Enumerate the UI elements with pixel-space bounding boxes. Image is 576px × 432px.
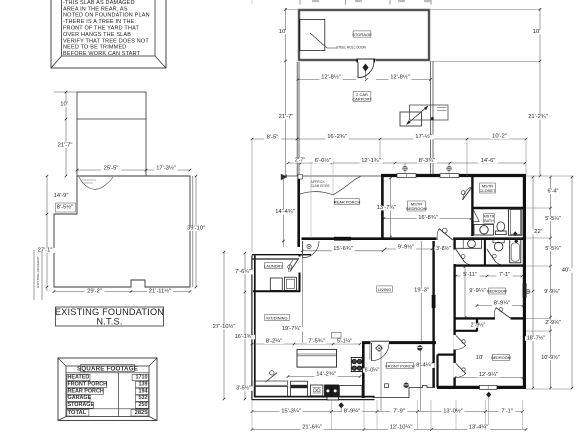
svg-text:CARPORT: CARPORT <box>352 97 372 102</box>
svg-text:17'-½": 17'-½" <box>415 133 431 140</box>
svg-text:10': 10' <box>476 355 484 361</box>
svg-text:-THERE IS A TREE IN THE: -THERE IS A TREE IN THE <box>63 19 135 25</box>
svg-text:OVER HANGS THE SLAB: OVER HANGS THE SLAB <box>63 32 131 38</box>
svg-text:1710: 1710 <box>136 375 148 381</box>
svg-text:21'-7": 21'-7" <box>279 114 294 120</box>
svg-text:21'-2¾": 21'-2¾" <box>528 114 548 120</box>
svg-text:BEDROOM: BEDROOM <box>491 356 511 360</box>
svg-text:AREA IN THE REAR, AS: AREA IN THE REAR, AS <box>63 6 128 12</box>
svg-text:15'-3¼": 15'-3¼" <box>281 408 301 414</box>
svg-text:FRONT OF THE YARD THAT: FRONT OF THE YARD THAT <box>63 26 140 32</box>
svg-text:12'-10¼": 12'-10¼" <box>390 425 413 431</box>
svg-text:10': 10' <box>533 29 541 35</box>
svg-text:27'-1": 27'-1" <box>38 248 53 254</box>
svg-text:194: 194 <box>139 388 148 394</box>
svg-text:STORAGE: STORAGE <box>352 32 372 37</box>
svg-text:18'-7½": 18'-7½" <box>527 335 546 342</box>
svg-text:NEED TO BE TRIMMED: NEED TO BE TRIMMED <box>63 45 126 51</box>
svg-text:8'-5": 8'-5" <box>267 134 279 140</box>
svg-text:NOTED ON FOUNDATION PLAN: NOTED ON FOUNDATION PLAN <box>63 13 150 19</box>
svg-text:KIT/DINING: KIT/DINING <box>266 315 287 320</box>
svg-text:SLAB EDGE: SLAB EDGE <box>311 184 331 188</box>
svg-text:7'-1": 7'-1" <box>499 272 510 278</box>
svg-text:16'-2¾": 16'-2¾" <box>327 134 347 140</box>
svg-text:LAUNDRY: LAUNDRY <box>264 263 283 268</box>
svg-text:MSTR: MSTR <box>484 214 495 218</box>
svg-text:532: 532 <box>139 395 148 401</box>
svg-text:22': 22' <box>534 229 542 235</box>
svg-text:7'-5¾": 7'-5¾" <box>308 339 324 345</box>
svg-text:12'-9¼": 12'-9¼" <box>479 372 499 378</box>
svg-text:5'-5¼": 5'-5¼" <box>545 216 561 222</box>
svg-text:16'-1¾": 16'-1¾" <box>235 334 254 340</box>
svg-text:10': 10' <box>279 29 287 35</box>
svg-text:7'-6¼": 7'-6¼" <box>235 269 251 275</box>
svg-text:7'-9": 7'-9" <box>393 408 405 414</box>
svg-text:BEDROOM: BEDROOM <box>487 289 507 293</box>
svg-text:EXISTING DRIVEWAY: EXISTING DRIVEWAY <box>36 256 40 287</box>
svg-text:21'-6¾": 21'-6¾" <box>302 425 322 431</box>
svg-text:40'-: 40'- <box>562 268 572 274</box>
svg-text:BEDROOM: BEDROOM <box>406 206 427 211</box>
svg-text:21'-11½": 21'-11½" <box>149 288 171 295</box>
svg-text:12'-8½": 12'-8½" <box>390 74 410 81</box>
svg-text:10': 10' <box>60 102 68 108</box>
svg-text:13'-7¾": 13'-7¾" <box>377 205 397 211</box>
svg-text:8'-3¾": 8'-3¾" <box>419 158 435 164</box>
svg-text:VERIFY THAT TREE DOES NOT: VERIFY THAT TREE DOES NOT <box>63 38 149 44</box>
svg-text:REAR PORCH: REAR PORCH <box>68 388 104 394</box>
svg-text:139: 139 <box>139 381 148 387</box>
svg-text:9'-9¼": 9'-9¼" <box>469 288 485 294</box>
svg-text:2'-7": 2'-7" <box>295 158 305 164</box>
svg-text:STEEL ROLL DOOR: STEEL ROLL DOOR <box>336 46 366 50</box>
svg-text:8'-9¼": 8'-9¼" <box>344 408 360 414</box>
svg-text:10'-9½": 10'-9½" <box>541 354 560 361</box>
svg-text:6'-4": 6'-4" <box>548 189 559 195</box>
svg-text:17'-3½": 17'-3½" <box>156 165 176 172</box>
svg-text:21'-7": 21'-7" <box>58 143 73 149</box>
svg-text:19'-7¼": 19'-7¼" <box>282 326 302 332</box>
svg-text:25'-5": 25'-5" <box>104 166 119 172</box>
svg-text:3'-5½": 3'-5½" <box>236 385 251 392</box>
svg-text:13'-0½": 13'-0½" <box>443 407 463 414</box>
svg-text:LIVING: LIVING <box>378 287 391 292</box>
svg-text:REAR PORCH: REAR PORCH <box>334 199 361 204</box>
svg-text:BEFORE WORK CAN START: BEFORE WORK CAN START <box>63 51 141 57</box>
svg-text:14'-6": 14'-6" <box>481 158 496 164</box>
svg-text:8'-5½": 8'-5½" <box>57 204 73 211</box>
svg-text:12'-8½": 12'-8½" <box>321 74 341 81</box>
svg-text:2'-9½": 2'-9½" <box>471 322 486 329</box>
svg-text:-THIS SLAB AS DAMAGED: -THIS SLAB AS DAMAGED <box>63 0 135 6</box>
svg-text:8'-9¼": 8'-9¼" <box>494 301 510 307</box>
svg-text:N.T.S.: N.T.S. <box>96 317 122 327</box>
svg-text:5'-1¼": 5'-1¼" <box>337 339 352 345</box>
svg-text:BATH: BATH <box>484 219 494 223</box>
svg-text:14'-4¾": 14'-4¾" <box>275 209 295 215</box>
svg-text:CLOSET: CLOSET <box>479 188 496 193</box>
svg-text:3'-8½": 3'-8½" <box>436 245 451 252</box>
svg-text:FRONT PORCH: FRONT PORCH <box>68 381 108 387</box>
svg-text:8'-4¼": 8'-4¼" <box>416 363 432 369</box>
svg-text:10'-2": 10'-2" <box>492 134 507 140</box>
svg-text:2825: 2825 <box>135 410 149 416</box>
svg-text:6'-0½": 6'-0½" <box>315 157 331 164</box>
svg-text:14'-2¾": 14'-2¾" <box>316 372 336 378</box>
svg-text:14'-9": 14'-9" <box>54 193 69 199</box>
svg-text:TOTAL: TOTAL <box>68 410 87 416</box>
svg-text:STORAGE: STORAGE <box>68 402 95 408</box>
svg-text:GARAGE: GARAGE <box>68 395 92 401</box>
svg-text:7'-1": 7'-1" <box>501 408 513 414</box>
svg-text:39'-10": 39'-10" <box>187 226 205 232</box>
svg-text:12'-1¾": 12'-1¾" <box>361 158 381 164</box>
svg-text:2'-9¼": 2'-9¼" <box>545 320 561 326</box>
svg-text:8'-2¼": 8'-2¼" <box>266 339 282 345</box>
svg-text:9'-9¼": 9'-9¼" <box>544 289 560 295</box>
svg-text:19'-3": 19'-3" <box>414 287 429 293</box>
svg-text:9'-9½": 9'-9½" <box>398 244 414 251</box>
svg-text:HEATED: HEATED <box>68 375 90 381</box>
svg-text:29'-2": 29'-2" <box>87 289 102 295</box>
svg-text:6'-0¼": 6'-0¼" <box>365 368 380 374</box>
svg-text:250: 250 <box>139 402 148 408</box>
svg-text:5'-5¼": 5'-5¼" <box>545 246 561 252</box>
svg-text:16'-8¾": 16'-8¾" <box>418 215 438 221</box>
svg-text:27'-10½": 27'-10½" <box>213 323 236 330</box>
svg-text:EXISTING FOUNDATION: EXISTING FOUNDATION <box>55 307 164 317</box>
svg-text:FRONT PORCH: FRONT PORCH <box>385 363 414 368</box>
svg-text:15'-6¾": 15'-6¾" <box>333 246 353 252</box>
